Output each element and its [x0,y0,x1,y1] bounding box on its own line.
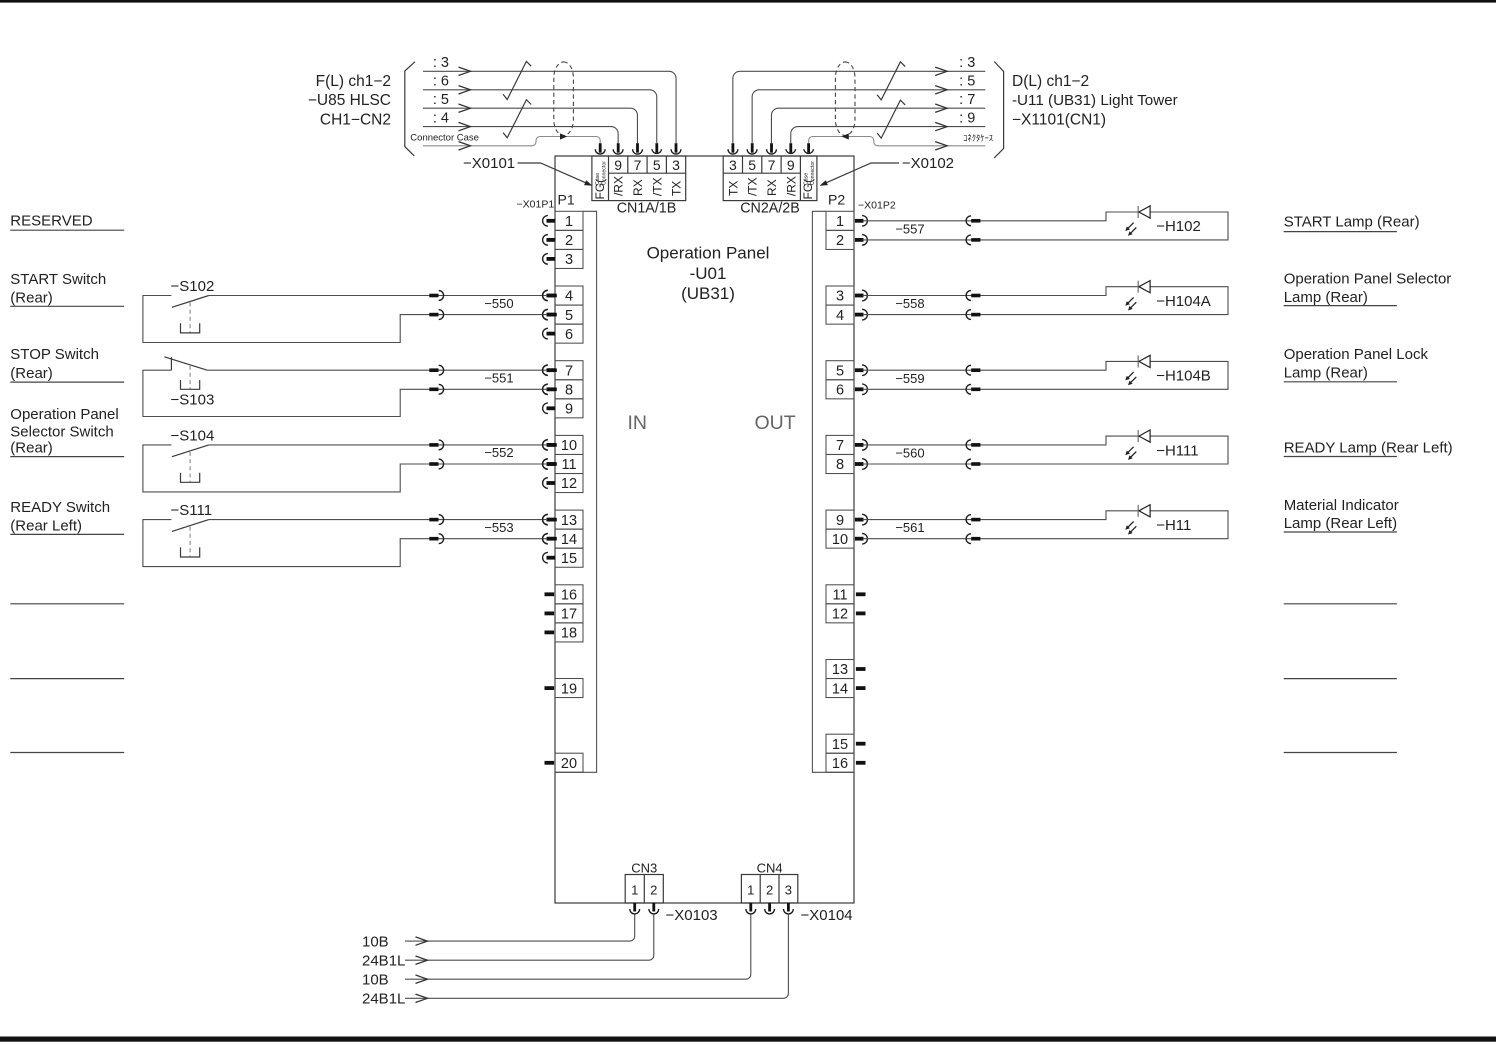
svg-text:P1: P1 [558,191,575,207]
svg-text:−557: −557 [895,221,924,236]
svg-text:3: 3 [836,289,844,305]
svg-text:Selector Switch: Selector Switch [10,423,113,440]
svg-text:(Rear Left): (Rear Left) [10,518,82,535]
splice male row 552b [429,462,438,466]
wire -553 (pair) [430,520,548,539]
svg-text:TX: TX [670,181,684,196]
svg-text:−X0104: −X0104 [801,907,853,924]
splice female at P1 row 551a [543,365,548,375]
node STOP Switch (Rear) [10,346,124,382]
CN2A pin 5 (/TX) [746,143,760,196]
svg-text:−X01P1: −X01P1 [517,199,555,211]
node Operation Panel Selector Lamp (Rear) [1284,271,1452,307]
svg-text:: 4: : 4 [433,110,449,126]
P2 pin 12 [826,604,866,623]
svg-text:: 9: : 9 [959,110,975,126]
P2 pin 14 [826,679,866,698]
svg-text:START Switch: START Switch [10,271,106,288]
splice male row 553a [429,518,438,522]
P1 pin 15 [543,548,583,567]
svg-text:READY Switch: READY Switch [10,499,110,516]
svg-text:D(L) ch1−2: D(L) ch1−2 [1012,73,1089,90]
svg-text:15: 15 [561,551,577,567]
svg-text:13: 13 [832,662,848,678]
svg-text:7: 7 [768,157,776,173]
splice male row 550b [429,313,438,317]
node Operation Panel Selector Switch (Rear) [10,406,124,456]
wire : 6 to CN1A [423,74,657,144]
wire -550 (pair) [430,296,548,315]
svg-text:-U01: -U01 [690,264,727,283]
wire S111 to P1 (top) [209,519,547,521]
svg-text:Connector Case: Connector Case [410,133,479,144]
svg-text:5: 5 [748,157,756,173]
P1 pin 17 [545,604,584,623]
CN4 pin 3 [784,883,794,914]
svg-text:Operation Panel: Operation Panel [10,406,118,423]
svg-text:7: 7 [836,438,844,454]
svg-text:: 5: : 5 [959,74,975,90]
svg-text:RX: RX [631,179,645,196]
svg-text:Operation Panel Lock: Operation Panel Lock [1284,346,1429,363]
node START Lamp (Rear) [1284,214,1420,232]
CN3 pin 2 [649,883,659,914]
wire S103 to P1 (top) [207,369,547,371]
wire S102 loop [143,296,430,343]
wire : 5 from CN2A [752,74,985,144]
splice female at P1 row 553b [543,534,548,544]
svg-text:START Lamp (Rear): START Lamp (Rear) [1284,214,1420,231]
op panel U01 main box [555,156,854,903]
svg-text:5: 5 [836,363,844,379]
svg-text:6: 6 [565,327,573,343]
blank reserved line right 2 [1284,678,1397,680]
P1 pin 4 [543,286,583,305]
svg-text:1: 1 [836,214,844,230]
switch S102 (NO pushbutton) [171,278,215,333]
svg-text:/TX: /TX [650,177,664,196]
svg-text:/RX: /RX [784,176,798,196]
wire -552 (pair) [430,445,548,464]
svg-text:RESERVED: RESERVED [10,213,92,230]
svg-text:16: 16 [561,588,577,604]
bottom border bar [0,1037,1496,1042]
P2 pin 13 [826,660,866,679]
splice female mid row 557b [966,235,971,245]
svg-text:-U11 (UB31) Light Tower: -U11 (UB31) Light Tower [1012,92,1178,109]
svg-text:CN4: CN4 [757,861,783,876]
svg-text:: 3: : 3 [959,55,975,71]
svg-text:10B: 10B [362,933,389,950]
svg-text:(Rear): (Rear) [10,290,53,307]
P1 pin 3 [543,249,583,268]
svg-text:−X0101: −X0101 [463,155,515,172]
twisted pair mark (:3/:6) [503,61,531,99]
top border bar [0,0,1496,3]
splice female mid row 558b [966,310,971,320]
CN4 pin 1 [746,883,756,914]
svg-text:2: 2 [565,233,573,249]
P2 pin 8 [826,455,867,474]
splice female mid row 560b [966,459,971,469]
connector CN2A/2B box [723,156,817,201]
node RESERVED [10,213,124,231]
svg-text:(UB31): (UB31) [681,284,735,303]
svg-text:−H104A: −H104A [1156,293,1211,310]
svg-text:−561: −561 [895,520,924,535]
svg-text:−X0103: −X0103 [666,907,718,924]
svg-text:7: 7 [565,363,573,379]
blank reserved line right 1 [1284,603,1397,605]
svg-text:1: 1 [565,214,573,230]
connector CN4 box [741,861,797,904]
P2 pin 2 [826,230,867,249]
CN1A pin FG (Connector Case) [593,143,608,199]
CN1A pin 3 (TX) [670,143,684,196]
svg-text:1: 1 [747,883,754,898]
svg-text:Case: Case [595,173,601,185]
P2 pin 9 [826,510,867,529]
svg-text:2: 2 [766,883,773,898]
P1 pin 19 [545,679,584,698]
cable group label D(L) ch1-2 / U11 (UB31) Light Tower / X1101(CN1) [1012,73,1178,129]
P1 pin 20 [545,753,584,772]
P2 pin 15 [826,734,866,753]
svg-text:2: 2 [836,233,844,249]
P1 pin 9 [543,399,583,418]
P2 pin 1 [826,211,867,230]
connector designator X0102 with leader [820,155,955,186]
svg-text:IN: IN [628,412,648,434]
splice male row 551b [429,388,438,392]
P1 pin 14 [543,529,583,548]
CN1A pin 9 (/RX) [612,143,626,196]
svg-text:15: 15 [832,737,848,753]
connector designator X0101 with leader [463,155,593,186]
P1 pin 10 [543,435,583,454]
svg-text:7: 7 [634,157,642,173]
wire : 7 from CN2A [771,92,985,143]
lamp H104A (LED indicator) [863,281,1228,315]
svg-text:8: 8 [836,457,844,473]
svg-text:24B1L: 24B1L [362,952,405,969]
svg-text:P2: P2 [828,191,845,207]
svg-text:3: 3 [785,883,792,898]
CN3 pin 1 [630,883,640,914]
wire : 4 to CN1A [423,110,618,143]
P1 pin 7 [543,361,583,380]
svg-text:: 6: : 6 [433,74,449,90]
wire Connector Case shield drain to CN1A FG [410,133,600,150]
svg-text:−S102: −S102 [171,278,215,295]
wire : 9 from CN2A [791,110,986,143]
lamp H104B (LED indicator) [863,355,1228,389]
wire S104 loop [143,445,430,492]
svg-text:3: 3 [565,252,573,268]
shield connection dot (right) [842,133,849,139]
CN2A pin 7 (RX) [765,143,779,196]
CN1A pin 7 (RX) [631,143,645,196]
wire 10B net [362,914,635,950]
P1 pin 8 [543,380,583,399]
P2 pin 16 [826,753,866,772]
P1 pin-field bracket [555,211,597,772]
svg-text:Lamp (Rear): Lamp (Rear) [1284,289,1368,306]
svg-text:20: 20 [561,756,577,772]
node Material Indicator Lamp (Rear Left) [1284,497,1399,532]
svg-text:11: 11 [832,588,847,604]
wire : 3 from CN2A [733,55,985,143]
P1 pin 16 [545,585,584,604]
svg-text:−559: −559 [895,371,924,386]
label Operation Panel -U01 (UB31) [647,244,770,304]
svg-text:−X0102: −X0102 [902,155,954,172]
svg-text:(Rear): (Rear) [10,365,53,382]
splice female mid row 557a [966,216,971,226]
svg-text:/TX: /TX [746,177,760,196]
blank reserved line left 1 [10,603,124,605]
splice female at P1 row 553a [543,515,548,525]
svg-text:1: 1 [631,883,638,898]
node READY Switch (Rear Left) [10,499,124,535]
svg-text:−S104: −S104 [171,427,215,444]
svg-text:9: 9 [565,402,573,418]
svg-text:Material Indicator: Material Indicator [1284,497,1399,514]
svg-text:F(L) ch1−2: F(L) ch1−2 [316,73,391,90]
P1 pin 12 [543,474,583,493]
svg-text:9: 9 [836,513,844,529]
svg-text:−H11: −H11 [1156,517,1191,534]
splice female at P1 row 551b [543,384,548,394]
svg-text:Connector: Connector [810,161,816,185]
svg-text:/RX: /RX [612,176,626,196]
cable group label F(L) ch1-2 / U85 HLSC CH1-CN2 [308,73,391,129]
blank reserved line right 3 [1284,752,1397,754]
switch S111 (NO pushbutton) [171,502,213,557]
P2 pin 4 [826,305,867,324]
twisted pair mark (:5/:4) [503,100,531,138]
svg-text:Operation Panel: Operation Panel [647,244,770,263]
svg-text:RX: RX [765,179,779,196]
svg-text:3: 3 [729,157,737,173]
svg-text:−H104B: −H104B [1156,368,1211,385]
splice female mid row 559b [966,384,971,394]
twisted pair mark (:3/:5) [877,62,905,100]
P2 pin 10 [826,529,867,548]
P2 pin 3 [826,286,867,305]
svg-text:13: 13 [561,513,577,529]
svg-text:CN2A/2B: CN2A/2B [740,201,800,217]
splice male row 552a [429,443,438,447]
svg-text:Connector: Connector [602,161,608,185]
CN4 pin 2 [765,883,775,914]
node Operation Panel Lock Lamp (Rear) [1284,346,1429,382]
svg-text:−553: −553 [484,520,513,535]
svg-text:−560: −560 [895,446,924,461]
svg-text:: 5: : 5 [433,92,449,108]
wire : 3 to CN1A [423,55,676,143]
cable shield (right) [835,62,855,136]
svg-text:16: 16 [832,756,848,772]
svg-text:10B: 10B [362,971,389,988]
blank reserved line left 2 [10,678,124,680]
svg-text:19: 19 [561,681,577,697]
svg-text:4: 4 [836,308,844,324]
wire shield drain from CN2A FG [809,133,993,150]
svg-text:5: 5 [653,157,661,173]
CN2A pin 9 (/RX) [784,143,798,196]
svg-text:24B1L: 24B1L [362,991,405,1008]
wire 10B net [362,914,751,988]
node READY Lamp (Rear Left) [1284,439,1453,456]
wire S104 to P1 (top) [209,444,547,446]
wire S103 loop [143,370,430,416]
switch S103 (NC pushbutton) [164,357,214,409]
svg-text:14: 14 [561,532,577,548]
P1 pin 11 [543,455,583,474]
blank reserved line left 3 [10,752,124,754]
svg-text:−550: −550 [484,296,513,311]
P2 pin 7 [826,435,867,454]
svg-text:STOP Switch: STOP Switch [10,346,99,363]
svg-text:−U85 HLSC: −U85 HLSC [308,92,391,109]
svg-text:9: 9 [614,157,622,173]
cable bracket left [405,62,415,156]
lamp H102 (LED indicator) [863,206,1228,240]
svg-text:12: 12 [561,476,577,492]
splice female at P1 row 552a [543,440,548,450]
svg-text:: 3: : 3 [433,55,449,71]
P2 pin 5 [826,361,867,380]
svg-text:−X01P2: −X01P2 [858,200,896,212]
svg-text:3: 3 [672,157,680,173]
svg-text:OUT: OUT [755,412,796,434]
svg-text:9: 9 [787,157,795,173]
P1 pin 13 [543,510,583,529]
svg-text:−S103: −S103 [171,392,215,409]
wire -551 (pair) [430,371,548,390]
wire : 5 to CN1A [423,92,637,143]
lamp H11 (LED indicator) [863,505,1228,539]
shield connection dot (left) [560,133,567,139]
svg-text:CH1−CN2: CH1−CN2 [320,111,391,128]
svg-text:Case: Case [804,173,810,185]
svg-text:−558: −558 [895,296,924,311]
splice female at P1 row 550a [543,291,548,301]
svg-text:10: 10 [832,532,848,548]
svg-text:2: 2 [650,883,657,898]
cable bracket right [994,62,1003,158]
splice male row 551a [429,368,438,372]
cable shield (left) [554,62,574,136]
CN2A pin FG (Connector Case) [801,143,816,199]
splice female at P1 row 550b [543,310,548,320]
twisted pair mark (:7/:9) [877,100,905,138]
P1 pin 5 [543,305,583,324]
P2 pin 6 [826,380,867,399]
svg-text:12: 12 [832,607,848,623]
splice female mid row 558a [966,291,971,301]
svg-text:17: 17 [561,607,577,623]
P2 pin-field bracket [812,211,854,772]
svg-text:Lamp (Rear): Lamp (Rear) [1284,365,1368,382]
splice female mid row 559a [966,365,971,375]
splice male row 553b [429,537,438,541]
node START Switch (Rear) [10,271,124,307]
svg-text:CN3: CN3 [631,861,657,876]
svg-text:CN1A/1B: CN1A/1B [617,201,677,217]
svg-text:10: 10 [561,438,577,454]
svg-text:READY Lamp (Rear Left): READY Lamp (Rear Left) [1284,439,1453,456]
svg-text:Lamp (Rear Left): Lamp (Rear Left) [1284,515,1397,532]
svg-text:−551: −551 [484,371,513,386]
svg-text:−552: −552 [484,445,513,460]
connector CN1A/1B box [592,156,686,201]
svg-text:−S111: −S111 [171,502,213,519]
CN2A pin 3 (TX) [726,143,740,196]
splice male row 550a [429,294,438,298]
svg-text:4: 4 [565,289,573,305]
P2 pin 11 [826,585,866,604]
lamp H111 (LED indicator) [863,430,1228,464]
splice female at P1 row 552b [543,459,548,469]
svg-text:5: 5 [565,308,573,324]
splice female mid row 560a [966,440,971,450]
svg-text:6: 6 [836,383,844,399]
P1 pin 6 [543,324,583,343]
svg-text:−H111: −H111 [1156,442,1198,459]
wire S102 to P1 (top) [209,295,547,297]
switch S104 (NO pushbutton) [171,427,215,482]
connector CN3 box [625,861,663,904]
svg-text:18: 18 [561,626,577,642]
svg-text:−X1101(CN1): −X1101(CN1) [1012,111,1106,128]
svg-text:8: 8 [565,383,573,399]
svg-text:11: 11 [561,457,576,473]
splice female mid row 561a [966,515,971,525]
CN1A pin 5 (/TX) [650,143,664,196]
P1 pin 1 [543,211,583,230]
svg-text:ｺﾈｸﾀｹｰｽ: ｺﾈｸﾀｹｰｽ [963,133,993,143]
svg-text:(Rear): (Rear) [10,439,53,456]
wire 24B1L net [362,914,654,969]
svg-text:−H102: −H102 [1156,218,1201,235]
P1 pin 2 [543,230,583,249]
P1 pin 18 [545,623,584,642]
splice female mid row 561b [966,534,971,544]
wire 24B1L net [362,914,788,1007]
svg-text:14: 14 [832,681,848,697]
wire S111 loop [143,520,430,567]
svg-text:TX: TX [726,181,740,196]
svg-text:: 7: : 7 [959,92,975,108]
svg-text:Operation Panel Selector: Operation Panel Selector [1284,271,1452,288]
